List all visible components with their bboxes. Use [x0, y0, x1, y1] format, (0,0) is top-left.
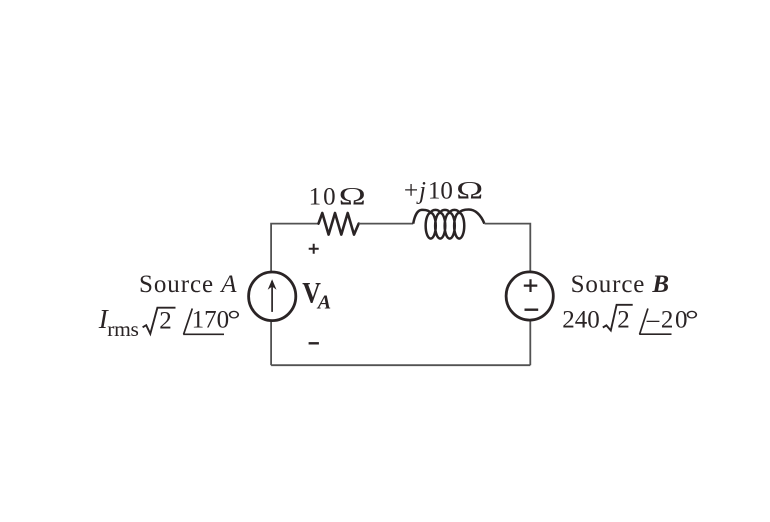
svg-text:10: 10 [309, 184, 338, 211]
svg-text:170: 170 [192, 306, 230, 333]
wire: bottom-left corner up to source A [270, 321, 272, 365]
wire: inductor to top-right corner down to source B [485, 224, 531, 272]
svg-text:A: A [316, 292, 331, 314]
label: radical sign left [143, 308, 176, 334]
wire: resistor to inductor [359, 223, 414, 225]
label: angle slash left [184, 309, 193, 335]
wire: bottom return wire [271, 364, 530, 366]
svg-text:Ω: Ω [338, 184, 366, 211]
resistor 10 ohm zigzag [319, 213, 359, 235]
current source A arrow shaft [271, 281, 273, 312]
svg-text:10: 10 [428, 178, 453, 205]
svg-text:–: – [646, 307, 660, 334]
label: angle underline left [183, 333, 224, 335]
wire: source B bottom to bottom-right corner [529, 321, 531, 365]
voltage source B minus sign [525, 309, 539, 311]
wire: source A top to resistor (top-left corner) [271, 224, 318, 272]
svg-text:2: 2 [617, 307, 630, 334]
svg-text:240: 240 [562, 307, 600, 334]
label: plus terminal of VA [309, 244, 319, 254]
inductor +j10 ohm coil [413, 210, 484, 239]
svg-text:Source B: Source B [571, 271, 670, 298]
svg-text:Ω: Ω [456, 178, 484, 205]
current source A circle [249, 272, 296, 321]
svg-text:rms: rms [107, 317, 139, 341]
label: angle slash right [640, 309, 648, 335]
label: minus terminal of VA [309, 342, 319, 344]
voltage source B plus sign [524, 279, 538, 292]
svg-text:Source A: Source A [139, 271, 237, 298]
label: radical sign right [603, 305, 633, 331]
svg-text:°: ° [685, 307, 699, 334]
voltage source B circle [506, 272, 553, 320]
svg-text:°: ° [227, 306, 241, 333]
current source A arrowhead [268, 279, 277, 290]
svg-text:+: + [404, 178, 418, 205]
svg-text:2: 2 [159, 308, 172, 335]
label: angle underline right [639, 333, 671, 335]
